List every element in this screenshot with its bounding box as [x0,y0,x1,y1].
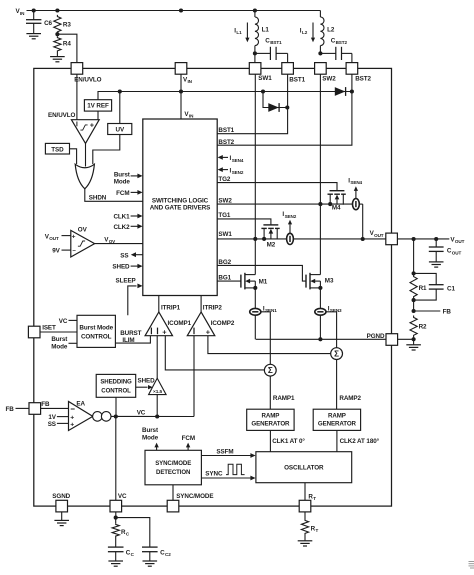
svg-text:FB: FB [41,401,50,408]
svg-text:TSD: TSD [51,146,64,153]
svg-text:C6: C6 [44,20,52,27]
svg-text:R3: R3 [63,21,71,28]
svg-text:IN: IN [20,11,25,16]
svg-text:T: T [316,528,319,533]
svg-text:L1: L1 [262,27,270,34]
svg-text:ITRIP2: ITRIP2 [203,304,223,311]
svg-text:M2: M2 [267,242,276,249]
svg-text:Mode: Mode [142,434,159,441]
svg-text:+: + [70,422,74,429]
svg-text:SHEDDING: SHEDDING [100,378,132,385]
svg-text:VC: VC [59,318,68,325]
svg-text:FB: FB [6,406,15,413]
svg-text:SHED: SHED [138,378,156,385]
svg-text:CLK2: CLK2 [113,224,130,231]
svg-text:BST2: BST2 [218,139,234,146]
svg-text:×1.5: ×1.5 [153,389,163,395]
svg-text:1V: 1V [48,414,56,421]
svg-text:FCM: FCM [116,190,129,197]
svg-text:R4: R4 [63,41,71,48]
svg-text:OUT: OUT [452,250,462,255]
svg-text:Mode: Mode [51,344,68,351]
svg-text:OUT: OUT [455,239,465,244]
svg-text:CLK1: CLK1 [113,214,130,221]
svg-text:SW2: SW2 [322,76,336,83]
svg-text:SLEEP: SLEEP [116,277,136,284]
svg-text:−: − [72,249,76,255]
svg-text:VC: VC [137,410,146,417]
svg-text:GENERATOR: GENERATOR [251,421,290,428]
svg-text:M1: M1 [259,279,268,286]
svg-text:DETECTION: DETECTION [156,469,190,476]
svg-text:BST1: BST1 [270,40,282,45]
svg-text:TG1: TG1 [218,212,231,219]
svg-text:IN: IN [188,79,193,84]
svg-text:SS: SS [120,252,128,259]
svg-text:RAMP2: RAMP2 [339,395,361,402]
svg-text:SHDN: SHDN [89,195,107,202]
svg-text:L2: L2 [327,27,335,34]
svg-text:M3: M3 [325,278,334,285]
svg-text:R1: R1 [419,285,427,292]
svg-text:BG1: BG1 [218,274,231,281]
svg-text:SYNC: SYNC [205,471,223,478]
svg-text:BST1: BST1 [218,127,234,134]
svg-text:Burst: Burst [114,171,131,178]
svg-text:SEN4: SEN4 [232,158,244,163]
svg-text:VC: VC [118,493,127,500]
svg-text:ICOMP2: ICOMP2 [211,320,235,327]
svg-text:CONTROL: CONTROL [81,333,112,340]
svg-text:AND GATE DRIVERS: AND GATE DRIVERS [150,204,211,211]
svg-text:SEN2: SEN2 [232,170,244,175]
svg-text:+: + [90,123,94,130]
svg-text:ISET: ISET [42,325,56,332]
svg-text:Burst: Burst [51,336,68,343]
svg-text:OUT: OUT [49,236,59,241]
svg-text:PGND: PGND [367,333,385,340]
svg-text:RAMP: RAMP [261,413,279,420]
svg-text:SGND: SGND [52,493,70,500]
svg-text:SSFM: SSFM [216,448,233,455]
svg-text:R2: R2 [419,324,427,331]
svg-text:BST2: BST2 [355,76,371,83]
svg-text:EN/UVLO: EN/UVLO [74,76,101,83]
svg-text:L1: L1 [236,30,242,35]
svg-text:1V REF: 1V REF [87,103,109,110]
svg-text:T: T [313,496,316,501]
svg-text:SEN2: SEN2 [285,214,297,219]
svg-text:TG2: TG2 [218,176,231,183]
svg-text:+: + [72,234,76,241]
svg-text:FB: FB [443,308,452,315]
svg-text:OV: OV [109,239,116,244]
svg-text:GENERATOR: GENERATOR [318,421,357,428]
svg-text:SW1: SW1 [218,231,232,238]
svg-text:FCM: FCM [182,435,195,442]
svg-text:M4: M4 [332,205,341,212]
svg-text:OSCILLATOR: OSCILLATOR [284,465,324,472]
svg-text:BST1: BST1 [289,76,305,83]
svg-text:OV: OV [78,227,88,234]
svg-text:SEN4: SEN4 [350,180,362,185]
svg-text:UV: UV [116,126,125,133]
svg-text:RAMP1: RAMP1 [273,395,295,402]
svg-text:ILIM: ILIM [122,337,134,344]
svg-text:L2: L2 [302,30,308,35]
svg-text:C1: C1 [447,285,455,292]
svg-text:SYNC/MODE: SYNC/MODE [176,493,213,500]
svg-text:SW1: SW1 [258,75,272,82]
svg-text:SW2: SW2 [218,197,232,204]
svg-text:EN/UVLO: EN/UVLO [48,112,75,119]
svg-text:IN: IN [189,114,194,119]
svg-text:BST2: BST2 [336,40,348,45]
svg-text:OUT: OUT [374,233,384,238]
svg-text:EA: EA [76,401,85,408]
svg-text:Burst: Burst [142,427,159,434]
svg-text:SWITCHING LOGIC: SWITCHING LOGIC [152,197,209,204]
svg-text:RAMP: RAMP [328,413,346,420]
svg-text:Σ: Σ [334,350,339,359]
svg-text:9V: 9V [52,248,60,255]
svg-text:SS: SS [48,421,56,428]
svg-text:Mode: Mode [114,179,131,186]
svg-text:Σ: Σ [268,366,273,375]
svg-text:ICOMP1: ICOMP1 [168,320,192,327]
svg-text:SYNC/MODE: SYNC/MODE [155,460,191,467]
svg-text:ITRIP1: ITRIP1 [161,304,181,311]
svg-text:CLK1 AT 0°: CLK1 AT 0° [272,437,305,445]
svg-text:Burst Mode: Burst Mode [79,324,113,331]
svg-text:C2: C2 [165,552,171,557]
svg-text:CLK2 AT 180°: CLK2 AT 180° [340,437,380,445]
svg-text:CONTROL: CONTROL [101,387,131,394]
svg-text:SHED: SHED [112,264,130,271]
